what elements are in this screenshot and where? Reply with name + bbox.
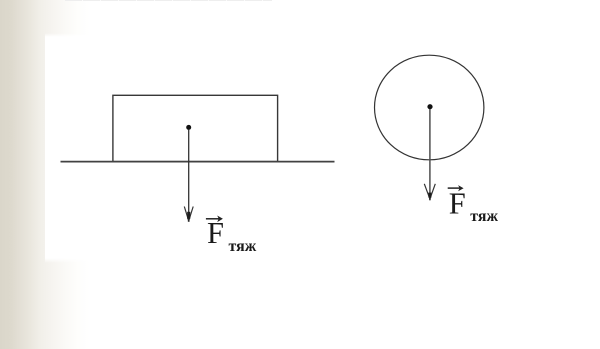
svg-text:тяж: тяж <box>229 238 257 255</box>
svg-text:F: F <box>449 187 466 221</box>
svg-text:F: F <box>207 216 224 250</box>
svg-text:тяж: тяж <box>470 208 498 225</box>
